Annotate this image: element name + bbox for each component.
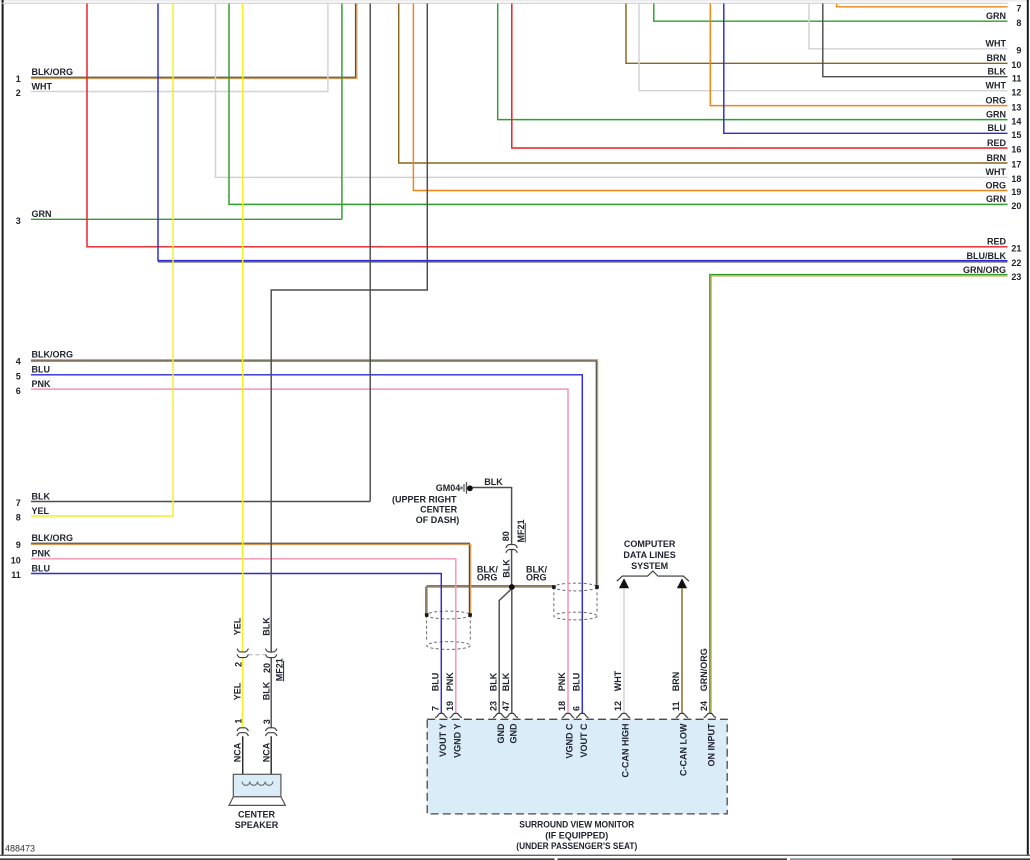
wire BLK right pin 11	[823, 4, 1022, 84]
svg-text:BLK: BLK	[488, 672, 498, 691]
wire NCA to speaker pin 1	[242, 736, 244, 781]
svg-text:BRN: BRN	[987, 53, 1007, 63]
svg-text:BLK: BLK	[501, 559, 511, 578]
pin 19 VGND Y of surround view monitor	[445, 672, 462, 758]
svg-text:WHT: WHT	[32, 81, 53, 91]
svg-text:(UNDER PASSENGER’S SEAT): (UNDER PASSENGER’S SEAT)	[516, 841, 637, 851]
svg-text:BLK: BLK	[484, 477, 503, 487]
svg-text:8: 8	[1016, 18, 1021, 28]
svg-text:OF DASH): OF DASH)	[416, 515, 460, 525]
svg-text:9: 9	[16, 540, 21, 550]
svg-text:CENTER: CENTER	[238, 809, 276, 819]
wire RED right pin 16	[512, 4, 1022, 155]
pin 2 MF21	[233, 662, 243, 667]
svg-text:BLU: BLU	[32, 365, 51, 375]
svg-text:SYSTEM: SYSTEM	[631, 561, 668, 571]
wire GRN riser pin 3	[341, 4, 343, 220]
wire YEL riser to center speaker	[242, 4, 244, 728]
svg-text:GRN: GRN	[986, 109, 1006, 119]
svg-text:18: 18	[1011, 174, 1021, 184]
label BLK/ ORG left	[477, 565, 498, 583]
svg-text:GM04: GM04	[436, 483, 461, 493]
svg-text:10: 10	[1011, 60, 1021, 70]
svg-text:11: 11	[11, 570, 21, 580]
shield cylinder 1	[427, 611, 471, 649]
svg-text:23: 23	[488, 701, 498, 711]
label YEL lower	[233, 682, 243, 700]
wire WHT right pin 12	[639, 4, 1021, 98]
pin 12 C-CAN HIGH of surround view monitor	[613, 670, 630, 777]
svg-text:ORG: ORG	[477, 573, 498, 583]
svg-text:(IF EQUIPPED): (IF EQUIPPED)	[545, 830, 608, 840]
svg-text:GRN: GRN	[986, 11, 1006, 21]
svg-text:BLU/BLK: BLU/BLK	[967, 251, 1007, 261]
label BLK/ ORG right	[526, 565, 547, 583]
svg-text:1: 1	[233, 719, 243, 724]
svg-text:C-CAN LOW: C-CAN LOW	[679, 723, 689, 776]
svg-text:8: 8	[16, 513, 21, 523]
svg-text:16: 16	[1011, 145, 1021, 155]
wire BLU/BLK right pin 22	[158, 4, 1021, 268]
pin 23 GND of surround view monitor	[488, 672, 505, 743]
wire BLK/ORG left pin 1	[16, 4, 357, 84]
svg-text:18: 18	[557, 701, 567, 711]
pin 20 MF21	[262, 663, 272, 673]
svg-text:GRN: GRN	[986, 194, 1006, 204]
svg-text:BLU: BLU	[572, 673, 582, 692]
svg-text:PNK: PNK	[445, 672, 455, 692]
svg-text:RED: RED	[987, 138, 1007, 148]
svg-text:21: 21	[1011, 244, 1021, 254]
svg-text:BLK: BLK	[501, 672, 511, 691]
wire BLU left pin 11	[11, 563, 441, 713]
svg-text:BLK: BLK	[32, 491, 51, 501]
svg-text:1: 1	[16, 74, 21, 84]
svg-text:NCA: NCA	[261, 742, 271, 762]
label 80	[501, 531, 511, 541]
svg-text:12: 12	[1011, 87, 1021, 97]
svg-text:13: 13	[1011, 102, 1021, 112]
svg-text:WHT: WHT	[986, 81, 1007, 91]
svg-text:VGND C: VGND C	[565, 723, 575, 759]
svg-text:23: 23	[1011, 272, 1021, 282]
svg-text:BLU: BLU	[32, 563, 51, 573]
wire BLU right pin 15	[724, 4, 1022, 141]
wire ORG right pin 7	[837, 4, 1022, 14]
wire BLK/ORG shield bus	[426, 586, 554, 614]
center speaker	[229, 774, 285, 805]
svg-text:BLU: BLU	[988, 123, 1007, 133]
label SURROUND VIEW MONITOR	[516, 820, 637, 851]
svg-text:BLK/ORG: BLK/ORG	[32, 350, 74, 360]
wire BRN right pin 10	[626, 4, 1021, 71]
connector MF21 on GM04 wire	[506, 545, 517, 553]
svg-text:7: 7	[431, 706, 441, 711]
svg-text:17: 17	[1011, 160, 1021, 170]
wire GRN left pin 3	[16, 209, 342, 226]
svg-text:BLU: BLU	[431, 673, 441, 692]
svg-text:11: 11	[1012, 73, 1022, 83]
svg-text:20: 20	[262, 663, 272, 673]
svg-text:488473: 488473	[5, 844, 35, 854]
connector MF21 on YEL wire	[237, 649, 248, 658]
svg-text:YEL: YEL	[233, 617, 243, 635]
wire BLK riser pin 7	[369, 4, 371, 502]
shield dot cyl1 left	[425, 613, 429, 617]
svg-text:GND: GND	[508, 723, 518, 744]
wire WHT C-CAN HIGH arrow	[619, 578, 629, 714]
svg-text:COMPUTER: COMPUTER	[624, 539, 676, 549]
svg-text:15: 15	[1011, 130, 1021, 140]
svg-text:9: 9	[1016, 46, 1021, 56]
svg-text:6: 6	[572, 706, 582, 711]
wire WHT left pin 2	[16, 4, 328, 99]
wire WHT right pin 9	[809, 4, 1021, 56]
wire WHT right pin 18	[216, 4, 1022, 185]
svg-text:47: 47	[501, 701, 511, 711]
svg-text:MF21: MF21	[274, 658, 284, 681]
svg-text:6: 6	[16, 386, 21, 396]
svg-text:DATA LINES: DATA LINES	[623, 550, 675, 560]
wire PNK left pin 6	[16, 379, 568, 714]
pin 6 VOUT C of surround view monitor	[572, 673, 589, 758]
svg-text:BLK/ORG: BLK/ORG	[32, 533, 74, 543]
wire BLK to GND pin 47	[511, 590, 513, 714]
wire NCA to speaker pin 3	[270, 736, 272, 781]
label COMPUTER DATA LINES SYSTEM	[623, 539, 675, 571]
svg-text:3: 3	[262, 719, 272, 724]
wire YEL left pin 8	[16, 506, 174, 523]
svg-text:BRN: BRN	[987, 153, 1007, 163]
svg-text:7: 7	[16, 498, 21, 508]
ground GM04	[436, 482, 473, 494]
pin 18 VGND C of surround view monitor	[557, 672, 574, 759]
shield dot cyl2 right	[595, 585, 599, 589]
connector SURROUND VIEW MONITOR box	[427, 719, 727, 814]
junction BLK	[509, 584, 515, 590]
svg-text:24: 24	[699, 701, 709, 711]
svg-text:BRN: BRN	[671, 672, 681, 692]
svg-text:CENTER: CENTER	[420, 504, 458, 514]
wire BLK/ORG left pin 9	[16, 533, 471, 614]
brace computer data lines	[617, 571, 689, 581]
label BLK lower	[261, 681, 271, 700]
wire GRN/ORG right pin 23	[710, 265, 1022, 714]
pin 47 GND of surround view monitor	[501, 672, 518, 743]
svg-text:WHT: WHT	[986, 39, 1007, 49]
pin 11 C-CAN LOW of surround view monitor	[671, 672, 688, 776]
shield dot cyl2 left	[552, 585, 556, 589]
connector on speaker pin 3	[266, 728, 277, 736]
svg-text:(UPPER RIGHT: (UPPER RIGHT	[392, 495, 457, 505]
pin 1 speaker	[233, 719, 243, 724]
svg-text:GND: GND	[496, 723, 506, 744]
wire ORG right pin 13	[710, 4, 1021, 113]
svg-text:22: 22	[1011, 258, 1021, 268]
svg-text:BLK: BLK	[261, 681, 271, 700]
svg-text:NCA: NCA	[233, 742, 243, 762]
svg-text:10: 10	[11, 556, 21, 566]
wire BRN right pin 17	[399, 4, 1022, 170]
svg-text:PNK: PNK	[557, 672, 567, 692]
label NCA pin 1	[233, 742, 243, 762]
wire PNK left pin 10	[11, 549, 456, 714]
svg-text:19: 19	[1011, 187, 1021, 197]
svg-text:14: 14	[1011, 116, 1021, 126]
svg-text:GRN/ORG: GRN/ORG	[699, 648, 709, 691]
svg-text:ORG: ORG	[985, 95, 1006, 105]
wire YEL riser pin 8	[172, 4, 174, 517]
svg-text:4: 4	[16, 356, 21, 366]
pin 7 VOUT Y of surround view monitor	[431, 673, 448, 757]
svg-text:YEL: YEL	[32, 506, 50, 516]
wire GRN right pin 20	[229, 4, 1021, 212]
svg-text:YEL: YEL	[233, 682, 243, 700]
label CENTER SPEAKER	[235, 809, 279, 829]
svg-text:VOUT Y: VOUT Y	[438, 724, 448, 757]
svg-text:3: 3	[16, 216, 21, 226]
svg-text:VOUT C: VOUT C	[579, 723, 589, 758]
svg-text:WHT: WHT	[986, 167, 1007, 177]
wire BLK riser to center speaker	[271, 4, 427, 728]
svg-text:7: 7	[1016, 4, 1021, 14]
svg-text:BLK/ORG: BLK/ORG	[32, 67, 74, 77]
connector MF21 on BLK wire	[266, 649, 277, 658]
svg-text:VGND Y: VGND Y	[452, 724, 462, 758]
svg-text:ORG: ORG	[985, 180, 1006, 190]
svg-text:MF21: MF21	[516, 519, 526, 542]
wire BRN C-CAN LOW arrow	[677, 578, 687, 714]
svg-text:2: 2	[16, 88, 21, 98]
svg-text:12: 12	[613, 701, 623, 711]
label MF21	[516, 519, 526, 542]
label BLK rotated	[501, 559, 511, 578]
label NCA pin 3	[261, 742, 271, 762]
shield cylinder 2	[554, 583, 597, 620]
svg-text:20: 20	[1011, 201, 1021, 211]
wire GRN right pin 8	[654, 4, 1022, 28]
wire BLK to GND pin 23	[499, 589, 511, 713]
svg-text:GRN: GRN	[32, 209, 52, 219]
wire BLK left pin 7	[16, 491, 370, 508]
svg-text:GRN/ORG: GRN/ORG	[963, 265, 1006, 275]
svg-text:SURROUND VIEW MONITOR: SURROUND VIEW MONITOR	[519, 820, 634, 830]
svg-text:PNK: PNK	[32, 549, 52, 559]
svg-text:RED: RED	[987, 237, 1007, 247]
svg-text:PNK: PNK	[32, 379, 52, 389]
wire GRN right pin 14	[498, 4, 1022, 127]
label (UPPER RIGHT CENTER OF DASH)	[392, 495, 459, 526]
pin 24 ON INPUT of surround view monitor	[699, 648, 716, 766]
wire BLK/ORG left pin 4	[16, 350, 598, 586]
svg-text:SPEAKER: SPEAKER	[235, 820, 279, 830]
link MF21 halves	[249, 654, 266, 656]
wire BLU left pin 5	[16, 365, 583, 714]
label BLK upper	[261, 617, 271, 636]
svg-text:C-CAN HIGH: C-CAN HIGH	[621, 724, 631, 778]
label MF21 speaker	[274, 658, 284, 681]
label YEL upper	[233, 617, 243, 635]
pin 3 speaker	[262, 719, 272, 724]
wire RED right pin 21	[87, 4, 1021, 254]
wire WHT top boundary	[2, 2, 1008, 4]
svg-text:5: 5	[16, 372, 21, 382]
svg-text:ORG: ORG	[526, 573, 547, 583]
label 488473	[5, 844, 35, 854]
svg-text:2: 2	[233, 662, 243, 667]
svg-text:ON INPUT: ON INPUT	[707, 723, 717, 767]
svg-text:BLK: BLK	[261, 617, 271, 636]
wire BLK from GM04	[473, 477, 512, 585]
svg-text:80: 80	[501, 531, 511, 541]
svg-text:11: 11	[671, 701, 681, 711]
svg-text:BLK: BLK	[988, 67, 1007, 77]
svg-text:WHT: WHT	[613, 670, 623, 691]
wire ORG right pin 19	[413, 4, 1021, 198]
shield dot cyl1 right	[468, 613, 472, 617]
svg-text:19: 19	[445, 701, 455, 711]
connector on speaker pin 1	[237, 728, 248, 736]
